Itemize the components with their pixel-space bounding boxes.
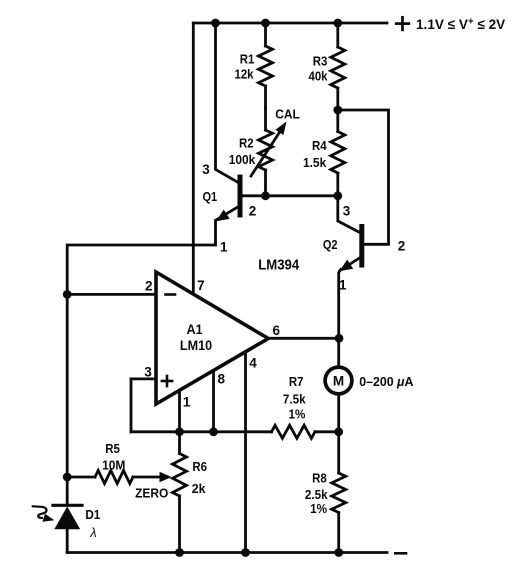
transistor Q2 bbox=[359, 227, 364, 266]
svg-text:LM10: LM10 bbox=[180, 337, 212, 353]
node R7/meter/R8 bbox=[334, 427, 343, 436]
svg-text:M: M bbox=[333, 374, 344, 389]
wire Q2 emitter to output node bbox=[339, 270, 341, 339]
svg-text:CAL: CAL bbox=[275, 107, 300, 122]
label minus at rail end bbox=[395, 552, 406, 555]
svg-text:ZERO: ZERO bbox=[135, 486, 168, 501]
svg-text:3: 3 bbox=[144, 365, 152, 380]
svg-text:0–200 μA: 0–200 μA bbox=[359, 375, 413, 389]
svg-text:Q2: Q2 bbox=[323, 237, 338, 252]
wire pin 8 bbox=[212, 371, 215, 432]
svg-text:2k: 2k bbox=[192, 482, 207, 496]
svg-text:A1: A1 bbox=[187, 321, 204, 337]
svg-text:12k: 12k bbox=[234, 67, 253, 82]
svg-text:4: 4 bbox=[249, 355, 257, 370]
wire op-amp output pin 6 bbox=[268, 337, 339, 340]
wire V+ rail to op-amp pin 7 bbox=[192, 23, 195, 294]
svg-text:Q1: Q1 bbox=[202, 189, 217, 204]
svg-text:1: 1 bbox=[183, 395, 191, 410]
svg-text:R7: R7 bbox=[289, 374, 304, 389]
svg-text:R1: R1 bbox=[240, 52, 255, 67]
svg-text:2: 2 bbox=[398, 239, 406, 254]
node R2 bottom/base rail bbox=[261, 191, 270, 200]
transistor Q1 bbox=[238, 177, 243, 215]
wire Q2 base lead bbox=[338, 196, 360, 233]
resistor R8 bbox=[337, 432, 340, 473]
svg-text:2.5k: 2.5k bbox=[305, 487, 328, 502]
node R5/D1 junction bbox=[63, 473, 72, 482]
svg-text:1.1V ≤ V+ ≤ 2V: 1.1V ≤ V+ ≤ 2V bbox=[416, 16, 506, 32]
svg-text:R6: R6 bbox=[192, 459, 207, 474]
wire meter to R7/R8 node bbox=[337, 394, 340, 432]
wire pin 3 feedback loop bbox=[131, 379, 156, 432]
wire pin 4 to negative rail bbox=[244, 352, 247, 553]
svg-text:7.5k: 7.5k bbox=[283, 392, 306, 407]
node pin1/R6 top bbox=[175, 427, 184, 436]
node rail/Q1 collector bbox=[211, 19, 220, 28]
wire Q1 emitter to inverting input branch bbox=[67, 221, 215, 295]
op-amp plus input marking bbox=[162, 380, 172, 383]
svg-text:3: 3 bbox=[343, 204, 351, 219]
svg-text:100k: 100k bbox=[229, 153, 256, 168]
potentiometer R2 bbox=[264, 108, 267, 130]
svg-text:R2: R2 bbox=[239, 136, 254, 151]
svg-text:6: 6 bbox=[272, 323, 280, 338]
svg-text:2: 2 bbox=[249, 203, 257, 218]
node rail/R1 bbox=[261, 19, 270, 28]
wire R7 to meter node bbox=[315, 430, 339, 433]
svg-text:10M: 10M bbox=[102, 458, 125, 473]
node pin8/feedback bbox=[209, 427, 218, 436]
op-amp minus input marking bbox=[166, 293, 176, 296]
node R3/R4/collector loop bbox=[333, 106, 342, 115]
wire output node to meter bbox=[337, 338, 340, 367]
wire pin 1 bbox=[178, 390, 181, 432]
node R6/negative rail bbox=[175, 548, 184, 557]
svg-text:R8: R8 bbox=[312, 471, 327, 486]
node R8/negative rail bbox=[334, 548, 343, 557]
wire Q1 collector from rail bbox=[216, 23, 241, 184]
wire bottom feedback rail to R7 bbox=[131, 430, 272, 433]
svg-text:R3: R3 bbox=[313, 54, 328, 69]
node rail/R3 bbox=[333, 19, 342, 28]
resistor R7 bbox=[272, 425, 316, 438]
svg-text:R5: R5 bbox=[105, 441, 120, 456]
svg-text:1%: 1% bbox=[289, 407, 306, 422]
label plus at top rail bbox=[396, 22, 409, 25]
rheostat R6 bbox=[178, 432, 181, 454]
svg-text:R4: R4 bbox=[312, 138, 327, 153]
svg-text:2: 2 bbox=[145, 279, 153, 294]
svg-text:LM394: LM394 bbox=[258, 256, 299, 273]
photodiode D1 bbox=[66, 477, 69, 504]
wire left branch down to R5/D1 junction bbox=[66, 294, 69, 477]
svg-text:λ: λ bbox=[89, 525, 96, 540]
wire Q2 collector loop to R3/R4 junction bbox=[338, 110, 389, 244]
svg-text:3: 3 bbox=[202, 162, 210, 177]
svg-text:8: 8 bbox=[217, 371, 225, 386]
svg-text:D1: D1 bbox=[85, 508, 100, 523]
op-amp A1 bbox=[156, 272, 268, 404]
node R4 bottom/Q2 base bbox=[333, 191, 342, 200]
resistor R5 bbox=[67, 476, 95, 479]
wire op-amp inverting input pin 2 bbox=[67, 293, 156, 296]
wire negative supply rail bbox=[67, 551, 387, 554]
node pin4/negative rail bbox=[241, 548, 250, 557]
meter M bbox=[325, 367, 352, 394]
node inverting input junction bbox=[63, 290, 72, 299]
node output/Q2 emitter/meter bbox=[335, 334, 344, 343]
svg-text:1: 1 bbox=[220, 240, 228, 255]
svg-text:1%: 1% bbox=[310, 501, 327, 516]
svg-text:40k: 40k bbox=[308, 69, 327, 84]
wire positive supply rail bbox=[193, 22, 387, 25]
svg-text:1: 1 bbox=[339, 278, 347, 293]
resistor R3 bbox=[336, 23, 339, 47]
wire base rail Q1 base to Q2 base node bbox=[240, 194, 338, 197]
svg-text:1.5k: 1.5k bbox=[303, 156, 326, 171]
light arrow to D1 bbox=[33, 506, 47, 518]
resistor R1 bbox=[264, 23, 267, 46]
resistor R4 bbox=[336, 110, 339, 132]
CAL adjust arrow on R2 bbox=[251, 132, 280, 177]
svg-text:7: 7 bbox=[197, 278, 205, 293]
wiper arrow R5 to R6 bbox=[133, 476, 161, 479]
